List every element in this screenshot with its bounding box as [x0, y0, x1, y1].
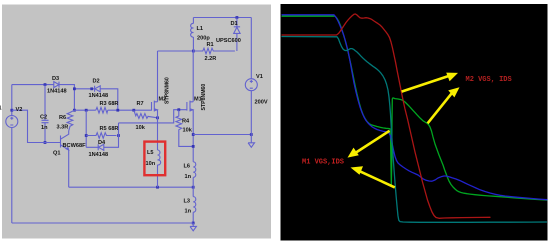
node R4 bottom junction	[192, 145, 195, 148]
wire V2 minus lead down	[11, 128, 13, 224]
wire R5 branch down	[85, 110, 87, 147]
diode D2	[95, 86, 101, 92]
schematic text labels	[0, 21, 268, 215]
wire M2 drain up	[157, 51, 159, 102]
resistor R1	[193, 48, 235, 54]
svg-text:R3 68R: R3 68R	[100, 101, 119, 107]
svg-text:M1 VGS,IDS: M1 VGS,IDS	[302, 159, 344, 167]
svg-text:D2: D2	[93, 79, 100, 85]
diode D1	[234, 27, 240, 34]
wire D1 to top rail	[236, 18, 238, 27]
node R7 tap	[132, 109, 135, 112]
svg-text:M2 VGS, IDS: M2 VGS, IDS	[466, 76, 512, 84]
svg-text:STP8NM60: STP8NM60	[165, 77, 171, 104]
node C2 tap	[44, 83, 47, 86]
node	[73, 87, 76, 90]
voltage source V2	[6, 116, 18, 128]
mosfet M1	[187, 101, 193, 112]
node R3 right / D2 branch	[116, 109, 119, 112]
ground symbol V1	[248, 143, 254, 148]
wire gate row right to M2	[108, 109, 152, 111]
node bottom	[192, 222, 195, 225]
wire L5 to mid rail	[157, 165, 159, 187]
svg-text:200p: 200p	[197, 36, 210, 42]
inductor L5	[158, 150, 161, 165]
wire L6 to junction	[192, 177, 194, 196]
annotation arrows yellow	[348, 73, 460, 188]
node R7 right on M2 source	[156, 116, 159, 119]
waveform text labels	[302, 76, 512, 167]
svg-text:R1: R1	[207, 42, 214, 48]
arrow to M2 label upper	[402, 76, 449, 92]
diode D4	[86, 144, 104, 150]
resistor R3	[96, 107, 108, 113]
schematic panel background	[2, 5, 271, 239]
wire top drain rail	[158, 50, 194, 52]
wire gnd rail to V1	[193, 134, 251, 136]
M1 IDS trace green	[282, 16, 547, 200]
svg-text:L6: L6	[184, 164, 191, 170]
node D2 anode	[90, 87, 93, 90]
resistor R4	[176, 110, 182, 131]
node D1 top	[236, 16, 239, 19]
svg-text:UPSC600: UPSC600	[216, 38, 241, 44]
wire M2 source down	[157, 110, 159, 150]
svg-text:D1: D1	[231, 21, 238, 27]
node V2 tap	[10, 109, 13, 112]
svg-text:BCW68F: BCW68F	[63, 143, 87, 149]
svg-text:D3: D3	[52, 76, 59, 82]
wire R4 bottom to M1 source	[179, 131, 193, 146]
svg-text:R7: R7	[137, 101, 144, 107]
inductor L1	[191, 23, 194, 37]
svg-text:L1: L1	[197, 26, 204, 32]
wire mid rail	[69, 186, 194, 188]
svg-text:10n: 10n	[146, 161, 156, 167]
arrow to M1 label lower	[359, 171, 395, 188]
wire gate row left	[74, 109, 95, 111]
wire Q1 emitter down	[68, 150, 70, 187]
svg-text:200V: 200V	[255, 100, 268, 106]
resistor R7	[134, 110, 158, 118]
arrow to M1 label upper	[356, 131, 390, 153]
svg-text:3.3R: 3.3R	[57, 125, 69, 131]
M2 IDS trace teal	[282, 37, 547, 223]
resistor R6	[67, 110, 74, 131]
mosfet M2	[152, 101, 158, 112]
M2 VGS trace red	[282, 14, 490, 218]
svg-text:1n: 1n	[41, 125, 48, 131]
node mid rail right	[192, 186, 195, 189]
svg-text:1n: 1n	[185, 174, 192, 180]
svg-text:1N4148: 1N4148	[47, 89, 67, 95]
node R4 top	[177, 108, 180, 111]
svg-text:C2: C2	[40, 115, 47, 121]
wire D2 row	[74, 88, 94, 90]
wire V1 top lead	[250, 18, 252, 79]
svg-text:10k: 10k	[183, 128, 193, 134]
wire D3 cathode right	[59, 85, 74, 89]
svg-text:2.2R: 2.2R	[205, 56, 217, 62]
svg-text:V2: V2	[16, 107, 23, 113]
wire D4 right up to R5 right	[104, 123, 119, 147]
red highlight box around L5	[144, 142, 165, 176]
svg-text:V1: V1	[256, 74, 263, 80]
waveform panel background	[281, 4, 548, 241]
waveform traces	[282, 14, 547, 222]
node mid rail M2 source	[156, 186, 159, 189]
ground symbol bottom	[190, 223, 196, 231]
wire top-left row to D3	[12, 84, 54, 86]
wire D2 to gate row	[100, 89, 118, 110]
wire L1 leads	[192, 18, 194, 52]
arrow to M2 label lower	[428, 94, 452, 124]
wire V2 plus lead up	[11, 85, 13, 116]
node R3 left	[85, 109, 88, 112]
wire V1 bottom lead	[250, 91, 252, 143]
node V1 minus	[250, 133, 253, 136]
node C2 bottom	[44, 141, 47, 144]
voltage source V1	[245, 79, 257, 91]
wire bottom rail	[12, 222, 193, 224]
M1 VGS trace blue	[282, 15, 547, 200]
transistor Q1	[61, 131, 69, 150]
svg-text:L3: L3	[184, 199, 191, 205]
svg-text:D4: D4	[98, 140, 106, 146]
svg-text:1N4148: 1N4148	[89, 93, 109, 99]
wire R1 right up to D1	[236, 33, 238, 51]
node source/gnd rail	[192, 133, 195, 136]
wire vertical D3row to gate row	[73, 89, 75, 110]
wire M1 drain up	[192, 51, 194, 102]
svg-text:10k: 10k	[136, 125, 146, 131]
node	[73, 109, 76, 112]
diode D3	[54, 82, 59, 88]
svg-text:L5: L5	[147, 150, 154, 156]
wire V2 tap to Q1 base	[12, 110, 61, 142]
wire M1 gate run	[119, 110, 187, 123]
svg-text:Q1: Q1	[53, 151, 60, 157]
wire top rail	[193, 17, 251, 19]
svg-text:R4: R4	[182, 119, 190, 125]
svg-text:1: 1	[0, 106, 2, 112]
inductor L6	[193, 162, 196, 178]
svg-text:R6: R6	[59, 115, 66, 121]
resistor R5	[86, 133, 116, 139]
svg-text:STP8NM60: STP8NM60	[201, 84, 207, 111]
svg-text:R5 68R: R5 68R	[100, 126, 119, 132]
node drain junction	[192, 50, 195, 53]
capacitor C2	[42, 85, 49, 143]
wire M1 source down	[192, 110, 194, 162]
inductor L3	[193, 197, 196, 213]
svg-text:1N4148: 1N4148	[89, 152, 109, 158]
wire L3 to bottom rail	[192, 212, 194, 223]
node R5 left	[85, 134, 88, 137]
node R5 right	[117, 134, 120, 137]
svg-text:1n: 1n	[185, 209, 192, 215]
